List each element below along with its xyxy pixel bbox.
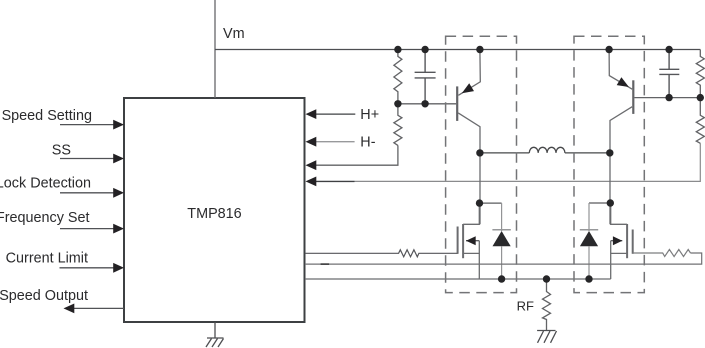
svg-text:Vm: Vm	[223, 26, 245, 42]
svg-text:Speed Output: Speed Output	[0, 288, 88, 304]
svg-text:Speed Setting: Speed Setting	[2, 108, 92, 124]
svg-text:TMP816: TMP816	[187, 206, 241, 222]
svg-text:Current Limit: Current Limit	[6, 251, 88, 267]
svg-text:Frequency Set: Frequency Set	[0, 210, 90, 226]
svg-text:H-: H-	[360, 134, 375, 150]
svg-text:Lock Detection: Lock Detection	[0, 176, 91, 192]
svg-text:SS: SS	[52, 143, 71, 159]
svg-text:H+: H+	[360, 107, 379, 123]
svg-text:RF: RF	[517, 298, 534, 313]
